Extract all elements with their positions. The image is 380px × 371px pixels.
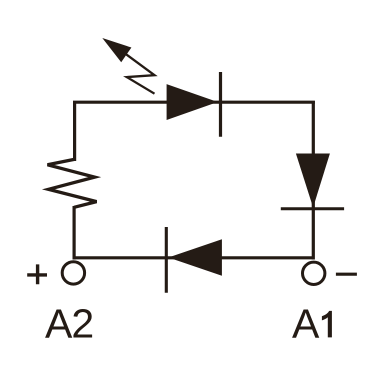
svg-text:A: A xyxy=(292,301,320,347)
diode D3 (bottom rail) triangle xyxy=(168,239,222,276)
wire: left vertical segment (top rail down to resistor) xyxy=(73,101,76,161)
wire: top rail xyxy=(73,101,315,104)
wire: bottom rail xyxy=(73,256,313,259)
wire: right vertical segment (top rail down to terminal A1) xyxy=(312,101,315,260)
resistor R1 xyxy=(48,159,97,207)
polarity sign + (at A2) xyxy=(27,264,47,284)
diode D2 cathode bar xyxy=(281,207,344,210)
LED D1 light-emission zigzag shaft xyxy=(125,54,154,94)
diode D3 cathode bar xyxy=(165,227,168,293)
wire: left vertical segment (resistor down to terminal A2) xyxy=(72,206,75,260)
polarity sign − (at A1) xyxy=(336,273,357,276)
LED D1 light-emission arrowhead xyxy=(102,38,131,62)
diode D2 (right branch) triangle xyxy=(296,154,330,208)
terminal A1 (circle) xyxy=(303,262,325,284)
label A1 (digit 1, drawn as path) xyxy=(322,311,332,338)
LED D1 (top rail) triangle xyxy=(167,84,218,120)
svg-text:A2: A2 xyxy=(45,301,93,347)
LED D1 cathode bar xyxy=(219,72,222,137)
terminal A2 (circle) xyxy=(62,262,84,284)
